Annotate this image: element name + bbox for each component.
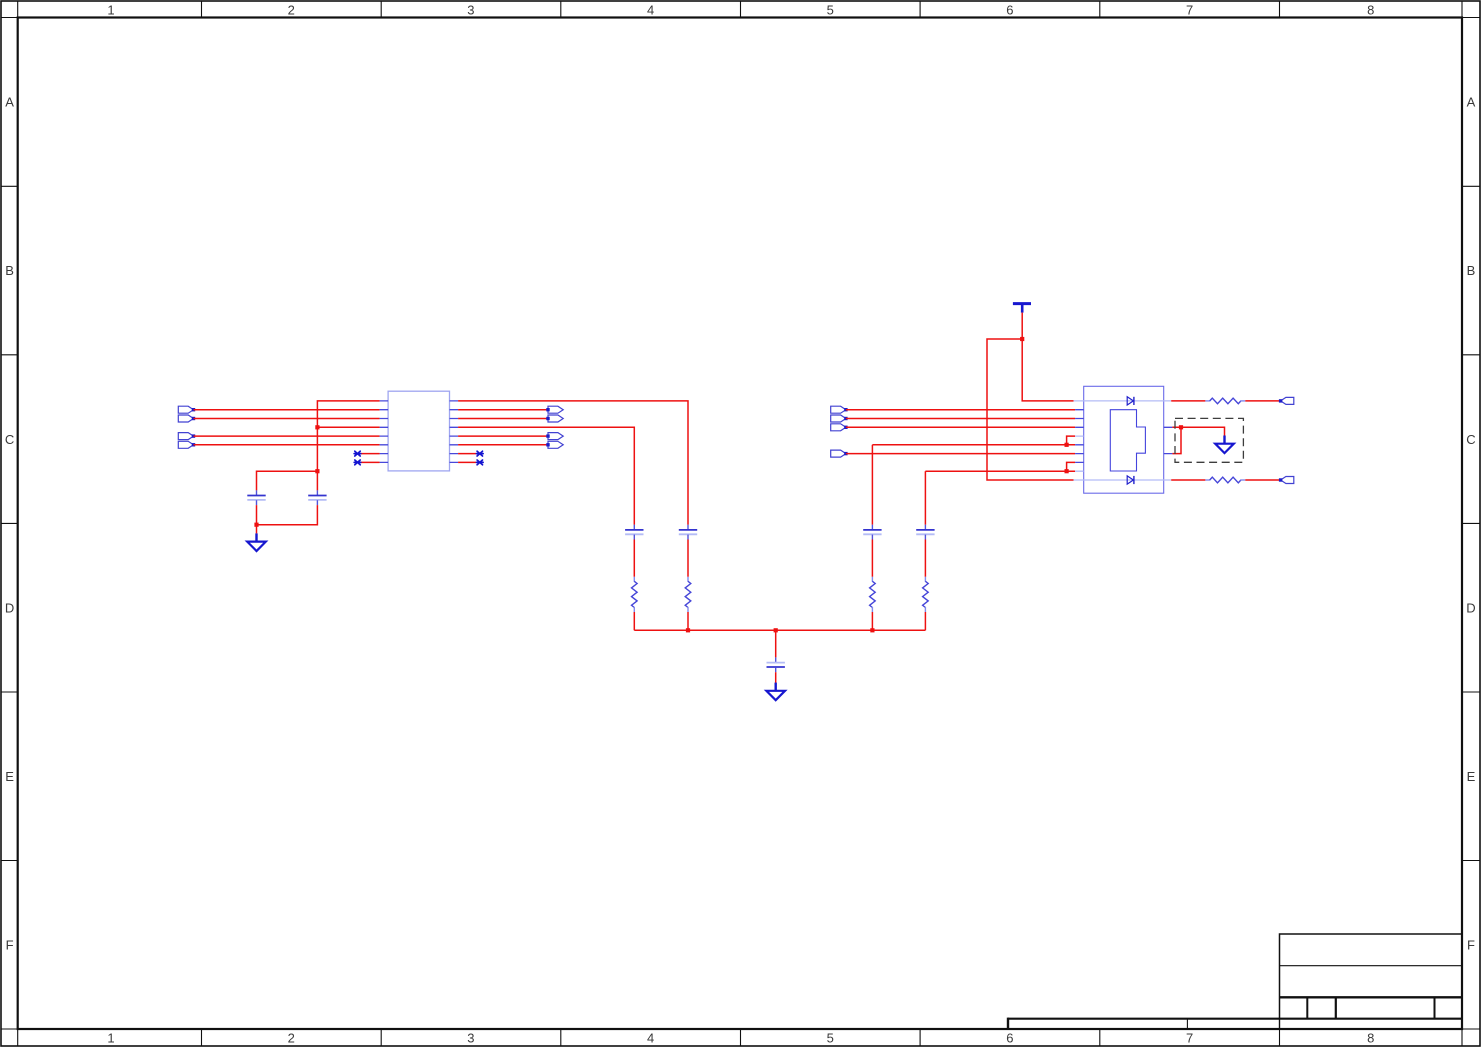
no-connect U1 pin7 left bbox=[354, 451, 379, 456]
wire J1 pin8 link bbox=[1067, 462, 1076, 471]
wire R6 to P14 bbox=[1245, 479, 1280, 481]
wire U1 out2 bbox=[458, 409, 548, 411]
resistor R4 bbox=[923, 577, 929, 612]
diode D1 bbox=[1127, 397, 1134, 405]
capacitor C7 bbox=[767, 657, 785, 672]
no-connect U1 pin7 right bbox=[458, 451, 483, 456]
svg-text:3: 3 bbox=[467, 1030, 474, 1045]
svg-text:C: C bbox=[1466, 432, 1475, 447]
wire U1 out3 bbox=[458, 418, 548, 420]
wire ground rail bbox=[634, 629, 925, 631]
no-connect U1 pin8 right bbox=[458, 460, 483, 465]
dashed box bbox=[1175, 418, 1243, 462]
svg-text:7: 7 bbox=[1186, 1030, 1193, 1045]
wire shield to ground bbox=[1172, 427, 1224, 436]
J1 diode rail top bbox=[1074, 400, 1172, 402]
port P14 bbox=[1279, 477, 1294, 484]
wire shield link bbox=[1172, 427, 1181, 453]
svg-text:2: 2 bbox=[288, 2, 295, 17]
junction at C2 branch bbox=[315, 469, 319, 473]
J1 diode rail bottom bbox=[1074, 479, 1172, 481]
J1 jack symbol bbox=[1110, 410, 1145, 471]
svg-text:C: C bbox=[5, 432, 14, 447]
port P9 bbox=[831, 406, 848, 413]
svg-text:B: B bbox=[1467, 263, 1476, 278]
wire VCC stem bbox=[1021, 313, 1023, 339]
capacitor C2 bbox=[308, 490, 326, 505]
svg-text:E: E bbox=[5, 769, 14, 784]
port P8 bbox=[546, 441, 563, 448]
svg-text:1: 1 bbox=[107, 2, 114, 17]
wire U1 out5 bbox=[458, 435, 548, 437]
wire R1 to rail bbox=[633, 612, 635, 630]
svg-text:6: 6 bbox=[1006, 2, 1013, 17]
svg-text:A: A bbox=[1467, 95, 1476, 110]
title block (empty) bbox=[1008, 934, 1462, 1029]
svg-text:D: D bbox=[1466, 600, 1475, 615]
wire J1 pin5 link bbox=[1067, 436, 1076, 445]
wire P1 to U1 pin2 bbox=[194, 409, 380, 411]
svg-text:8: 8 bbox=[1367, 1030, 1374, 1045]
wire D1 to R5 bbox=[1171, 400, 1205, 402]
wire U1 pin4 right to branch1 bbox=[458, 427, 634, 524]
port P2 bbox=[178, 415, 195, 422]
IC U1 bbox=[380, 391, 459, 471]
ground G2 bbox=[766, 683, 785, 701]
port P6 bbox=[546, 415, 563, 422]
wire C6 to R4 bbox=[924, 540, 926, 577]
wire to ground G1 bbox=[256, 525, 258, 534]
port P7 bbox=[546, 433, 563, 440]
capacitor C6 bbox=[916, 525, 934, 540]
svg-text:B: B bbox=[5, 263, 14, 278]
junction rail b2 bbox=[686, 628, 690, 632]
connector J1 bbox=[1075, 386, 1172, 493]
svg-text:F: F bbox=[1467, 938, 1475, 953]
svg-text:2: 2 bbox=[288, 1030, 295, 1045]
junction at pin4 drop bbox=[315, 425, 319, 429]
junction VCC bbox=[1020, 337, 1024, 341]
resistor R3 bbox=[870, 577, 876, 612]
svg-text:D: D bbox=[5, 600, 14, 615]
ground G3 bbox=[1215, 436, 1234, 454]
svg-text:E: E bbox=[1467, 769, 1476, 784]
diode D2 bbox=[1127, 476, 1134, 484]
wire D2 to R6 bbox=[1171, 479, 1205, 481]
junction at ground tap bbox=[254, 523, 258, 527]
wire R3 to rail bbox=[871, 612, 873, 630]
port P4 bbox=[178, 441, 195, 448]
wire P3 to U1 pin5 bbox=[194, 435, 380, 437]
resistor R6 bbox=[1205, 477, 1245, 483]
port P5 bbox=[546, 406, 563, 413]
wire branch3 top bbox=[871, 445, 873, 525]
svg-text:F: F bbox=[6, 938, 14, 953]
svg-text:7: 7 bbox=[1186, 2, 1193, 17]
wire P10 to J1 pin3 bbox=[846, 418, 1075, 420]
wire branch3 to J1 pin6 bbox=[872, 444, 1075, 446]
svg-text:4: 4 bbox=[647, 1030, 654, 1045]
junction rail center bbox=[774, 628, 778, 632]
power symbol VCC bbox=[1013, 304, 1031, 313]
junction pin8-9 bbox=[1065, 469, 1069, 473]
wire U1 pin1 power drop bbox=[317, 401, 379, 491]
wire R5 to P13 bbox=[1245, 400, 1280, 402]
wire C3 to R1 bbox=[633, 540, 635, 577]
ground G1 bbox=[247, 533, 266, 551]
wire P11 to J1 pin4 bbox=[846, 426, 1075, 428]
junction pin5-6 bbox=[1065, 443, 1069, 447]
port P1 bbox=[178, 406, 195, 413]
resistor R5 bbox=[1205, 398, 1245, 404]
wire P9 to J1 pin2 bbox=[846, 409, 1075, 411]
resistor R2 bbox=[685, 577, 691, 612]
svg-text:3: 3 bbox=[467, 2, 474, 17]
port P12 bbox=[831, 450, 848, 457]
wire C4 to R2 bbox=[687, 540, 689, 577]
port P10 bbox=[831, 415, 848, 422]
junction rail b3 bbox=[870, 628, 874, 632]
wire VCC to J1 pin10 bbox=[987, 339, 1074, 480]
no-connect U1 pin8 left bbox=[354, 460, 379, 465]
svg-text:4: 4 bbox=[647, 2, 654, 17]
wire rail to C7 bbox=[775, 630, 777, 657]
wire C1 C2 bottoms bbox=[257, 505, 318, 525]
wire P12 to J1 pin7 bbox=[846, 453, 1075, 455]
svg-text:5: 5 bbox=[827, 1030, 834, 1045]
wire U1 pin4 bbox=[317, 426, 379, 428]
svg-text:6: 6 bbox=[1006, 1030, 1013, 1045]
wire U1 pin1 right to branch2 bbox=[458, 401, 688, 525]
wire P4 to U1 pin6 bbox=[194, 444, 380, 446]
junction shield bbox=[1179, 425, 1183, 429]
wire branch4 top bbox=[924, 471, 926, 525]
port P11 bbox=[831, 424, 848, 431]
wire U1 out6 bbox=[458, 444, 548, 446]
wire R4 to rail bbox=[924, 612, 926, 630]
resistor R1 bbox=[632, 577, 638, 612]
capacitor C4 bbox=[679, 525, 697, 540]
wire branch4 to J1 pin9 bbox=[925, 470, 1075, 472]
wire R2 to rail bbox=[687, 612, 689, 630]
capacitor C5 bbox=[863, 525, 881, 540]
port P13 bbox=[1279, 397, 1294, 404]
wire branch to C1 bbox=[257, 471, 318, 490]
capacitor C1 bbox=[247, 490, 265, 505]
wire C5 to R3 bbox=[871, 540, 873, 577]
svg-text:A: A bbox=[5, 95, 14, 110]
wire P2 to U1 pin3 bbox=[194, 418, 380, 420]
svg-text:1: 1 bbox=[107, 1030, 114, 1045]
svg-text:5: 5 bbox=[827, 2, 834, 17]
wire C7 to ground G2 bbox=[775, 672, 777, 683]
capacitor C3 bbox=[625, 525, 643, 540]
wire VCC to J1 pin1 bbox=[1022, 339, 1073, 401]
port P3 bbox=[178, 433, 195, 440]
svg-text:8: 8 bbox=[1367, 2, 1374, 17]
